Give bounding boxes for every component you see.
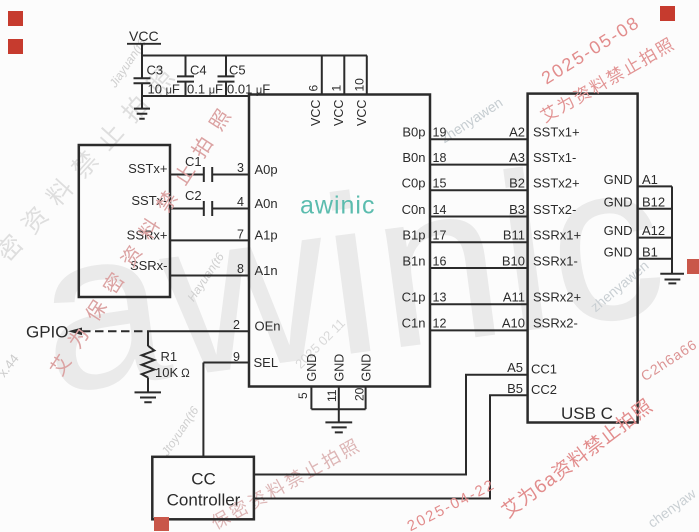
gray stamp: chenya bottom right corner — [645, 485, 699, 530]
pin 11 stub — [338, 387, 340, 410]
arrow GPIO — [68, 328, 82, 336]
wire GND A12 — [638, 237, 672, 239]
capacitor C4 — [177, 56, 194, 97]
wire CC2 — [254, 395, 528, 498]
wire B1p to B11 — [430, 241, 528, 243]
wire GND B12 — [638, 208, 672, 210]
node VCC rail top — [141, 44, 143, 78]
red mark square top-left 2 — [8, 39, 23, 54]
wire C1 to pin3 — [212, 174, 249, 176]
wire C1n to A10 — [430, 329, 528, 331]
wire GND stem — [338, 409, 340, 422]
gray stamp: Hayuan mid-left — [184, 250, 227, 304]
resistor R1 lead top — [147, 331, 149, 346]
gray stamp: 2025-02-11 inside IC — [292, 316, 348, 372]
wire SSRx- to pin8 — [170, 275, 249, 277]
resistor R1 lead bottom — [147, 378, 149, 393]
wire GND B1 — [638, 258, 672, 260]
red stamp 2025-05-08 — [538, 12, 644, 89]
red mark square bottom — [154, 517, 169, 531]
left interface box — [79, 145, 170, 297]
red mark square right edge — [687, 259, 699, 274]
wire B1n to B10 — [430, 267, 528, 269]
wire GND bus vertical — [671, 186, 673, 273]
gray stamp: zhenyawen right — [587, 257, 652, 315]
op-amp U1 main IC body — [249, 95, 430, 387]
wire C0p to B2 — [430, 189, 528, 191]
wire capacitors bottom rail — [142, 95, 249, 97]
wire VCC horizontal rail — [142, 55, 367, 57]
wire OEn solid — [148, 330, 249, 332]
wire C1p to A11 — [430, 303, 528, 305]
wire C0n to B3 — [430, 216, 528, 218]
capacitor C5 — [218, 56, 235, 97]
red stamp C2h6 right edge — [638, 336, 699, 384]
red stamp 艾为保密资料禁止拍照 diagonal left — [42, 92, 243, 380]
pin 10 stub — [366, 56, 368, 95]
wire SSRx+ to pin7 — [170, 239, 249, 241]
resistor R1 zigzag — [142, 346, 155, 378]
wire GPIO dashed — [82, 330, 148, 332]
red mark square top-left 1 — [8, 11, 23, 26]
wire SEL — [203, 363, 249, 457]
VCC underline — [127, 43, 161, 45]
pin 6 stub — [321, 56, 323, 95]
wire SSTx+ to C1 — [170, 174, 204, 176]
CC controller box — [152, 457, 254, 520]
wire GND A1 — [638, 185, 672, 187]
giant awinic watermark — [24, 106, 678, 444]
stamp: 保密资料禁止拍照 over CC wires — [206, 431, 366, 532]
red mark square top-right — [660, 6, 675, 21]
capacitor C3 — [134, 78, 151, 108]
gray diagonal stamp: 密资料禁止拍照 — [0, 49, 189, 268]
pin 5 stub — [310, 387, 312, 410]
wire C2 to pin4 — [212, 208, 249, 210]
red stamp chinese top-right — [535, 30, 679, 128]
wire CC1 — [254, 375, 528, 475]
ground right of USB C — [660, 274, 684, 284]
red stamp chinese bottom-right — [495, 392, 658, 524]
wire B0n to A3 — [430, 164, 528, 166]
ground under C3 — [134, 109, 150, 119]
red stamp 2025-04-22 bottom — [404, 476, 498, 532]
gray stamp: x.44 left edge — [0, 351, 22, 380]
wire SSTx- to C2 — [170, 208, 204, 210]
wire B0p to A2 — [430, 138, 528, 140]
connector J1 USB C box — [528, 94, 638, 423]
capacitor C1 — [204, 167, 212, 182]
ground under IC — [325, 422, 352, 432]
pin 1 stub — [343, 56, 345, 95]
pin 20 stub — [365, 387, 367, 410]
gray stamp: Jtoyuan near SEL wire — [159, 404, 202, 458]
gray stamp: zhenyawen upper — [437, 94, 505, 146]
capacitor C2 — [204, 201, 212, 216]
gray stamp: Jiayuan top-left — [106, 36, 149, 90]
ground under R1 — [135, 392, 162, 402]
wire GND bottom rail — [311, 408, 365, 410]
